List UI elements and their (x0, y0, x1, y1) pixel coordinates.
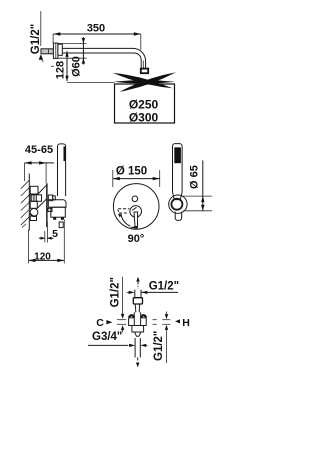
schematic G3/4 leader with arrows (88, 344, 148, 347)
arrow under nipple (39, 54, 43, 60)
schematic valve body box (132, 326, 144, 333)
svg-text:H: H (182, 317, 190, 329)
dimension D150 (113, 166, 160, 188)
svg-text:Ø250: Ø250 (129, 98, 159, 112)
schematic top pipe (135, 290, 141, 298)
schematic fitting box (133, 298, 142, 304)
valve cartridge circle (30, 209, 38, 217)
svg-text:G1/2": G1/2" (153, 331, 165, 361)
shower head star (perspective view) (113, 72, 177, 92)
lever rotation arrow (121, 214, 138, 229)
svg-text:Ø60: Ø60 (71, 56, 83, 77)
schematic right leader with inlet dimension H (153, 312, 171, 364)
arm collar (58, 44, 62, 55)
holder pivot stub (48, 208, 52, 211)
svg-text:90°: 90° (128, 233, 145, 245)
hand shower holder ring (front view) (169, 195, 187, 213)
dimension 45-65 (25, 144, 54, 183)
schematic: dash-dot up arrow (outlet to head) (136, 277, 139, 289)
concealed valve body (30, 185, 46, 220)
schematic outlet cone (135, 332, 141, 336)
escutcheon plate (side view) (46, 183, 48, 227)
label G1/2 top-left (arm inlet) (30, 24, 42, 54)
svg-text:C: C (96, 317, 104, 329)
lever pointing down (134, 212, 138, 227)
dimension 128 arm height (51, 51, 115, 82)
screw dot (132, 196, 138, 202)
dimension D60 flange (58, 37, 87, 77)
label H with arrow (175, 317, 190, 329)
dashed alternate lever position (118, 209, 130, 218)
schematic valve neck (135, 304, 139, 312)
hand shower holder (side view) (48, 200, 66, 228)
hand shower handle (side view) (58, 144, 66, 196)
nipple G1/2 behind wall (41, 49, 53, 54)
wall flange escutcheon (53, 43, 58, 58)
svg-text:G1/2": G1/2" (30, 24, 42, 54)
holder outlet stub (175, 212, 182, 221)
dimension 350 (53, 23, 141, 51)
svg-text:G1/2": G1/2" (149, 281, 179, 293)
hand shower handle (front view) (173, 144, 183, 200)
label C with arrow (96, 317, 112, 329)
svg-text:Ø 150: Ø 150 (116, 166, 147, 178)
head dimensions box (115, 84, 175, 123)
shower head connector nut (141, 69, 148, 74)
lever knob (130, 206, 142, 218)
leader line for G1/2 arm inlet (40, 11, 42, 46)
leader to top pipe with arrows (127, 291, 178, 294)
dimension 5 plate thickness (39, 222, 58, 243)
svg-text:G1/2": G1/2" (110, 277, 122, 307)
shower arm pipe with elbow (62, 48, 145, 68)
schematic dash-dot down arrow (136, 358, 139, 368)
mixer plate circle front view (113, 184, 159, 230)
dimension D65 (182, 160, 212, 210)
svg-text:128: 128 (55, 61, 67, 79)
schematic left leader with inlet dimension C (117, 277, 126, 333)
wall line (28, 174, 30, 231)
lever pivot detail (132, 207, 136, 210)
schematic valve side wings (129, 312, 147, 325)
holder nut behind plate (48, 195, 55, 201)
wall hatching (side view) (21, 180, 30, 227)
svg-text:Ø300: Ø300 (129, 111, 159, 125)
svg-text:45-65: 45-65 (25, 144, 53, 156)
dimension 120 (28, 220, 64, 264)
schematic outlet pipe (135, 338, 140, 358)
svg-text:G3/4": G3/4" (92, 331, 122, 343)
svg-text:350: 350 (87, 23, 105, 35)
svg-text:Ø 65: Ø 65 (189, 165, 201, 189)
